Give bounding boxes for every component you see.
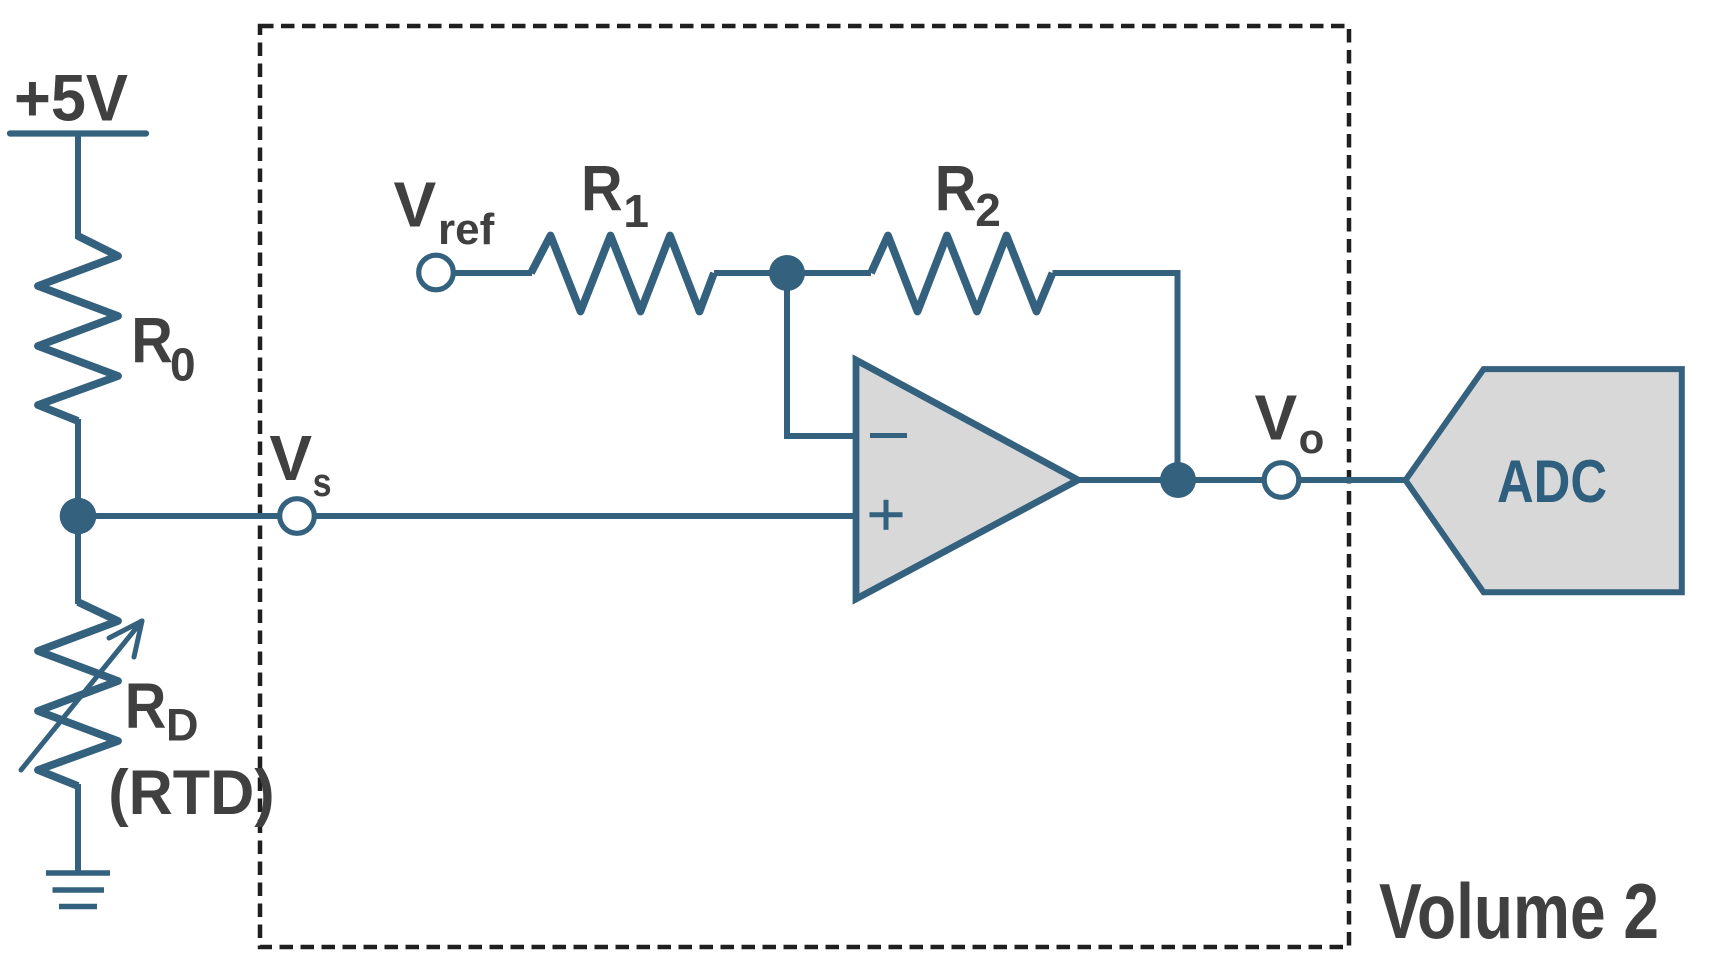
wire node B to inverting input [787,273,856,436]
svg-text:D: D [166,700,199,751]
node B summing junction [769,255,805,291]
svg-text:1: 1 [623,185,649,237]
minus input marker [870,433,907,438]
label Vs [269,422,331,505]
svg-text:V: V [1255,381,1298,453]
svg-text:V: V [269,422,312,494]
svg-text:R: R [125,670,167,741]
svg-text:R: R [131,305,173,376]
svg-text:ADC: ADC [1497,448,1607,515]
resistor R2 [871,236,1053,312]
svg-text:o: o [1299,415,1325,462]
ground [46,873,110,907]
wire R0 to node A [75,419,81,518]
svg-text:s: s [313,459,332,504]
svg-text:ref: ref [438,205,495,254]
wire R2 to output feedback [1053,273,1178,480]
svg-text:Volume 2: Volume 2 [1379,867,1659,955]
power rail bar [10,130,146,136]
svg-text:0: 0 [170,339,196,391]
terminal Vo [1264,463,1299,498]
resistor RD [38,602,118,786]
svg-text:R: R [935,153,977,224]
label R0 [131,305,195,391]
wire node B to R2 [787,270,871,276]
label R1 [581,153,649,237]
svg-text:V: V [394,168,437,240]
op-amp U1 [856,360,1078,599]
wire node A to op-amp noninverting input [78,513,856,519]
wire Vref to R1 [452,270,532,276]
terminal Vref [419,255,454,290]
node A divider tap [60,498,97,535]
plus input marker [870,500,903,530]
label Vref [394,168,495,254]
svg-text:2: 2 [975,184,1001,236]
svg-text:(RTD): (RTD) [108,758,274,828]
label RD [125,670,199,751]
label (RTD) [108,758,274,828]
wire node A to RD [75,516,81,604]
svg-text:R: R [581,153,623,224]
resistor R1 [531,236,714,312]
node C output [1160,462,1196,498]
terminal Vs [280,499,315,534]
label Vo [1255,381,1325,462]
ADC block [1406,369,1682,592]
dashed box Volume 2 boundary [260,26,1349,947]
wire RD to ground [75,784,81,871]
arrow (variable resistor) [21,621,142,770]
wire R1 to node B [714,270,787,276]
wire +5V to R0 [75,133,81,239]
resistor R0 [38,236,118,421]
label R2 [935,153,1001,236]
wire op-amp output to ADC [1078,477,1406,483]
svg-text:+5V: +5V [14,61,128,135]
